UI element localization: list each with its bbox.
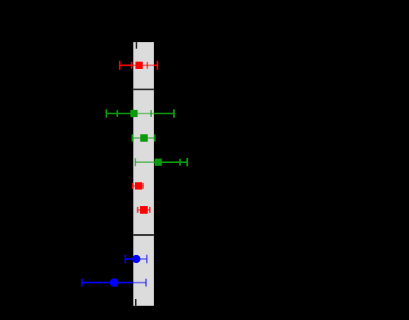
- data row B (green): error bar line right of band: [154, 113, 174, 115]
- data row A (red): error bar line left of band: [120, 64, 134, 66]
- data row H (blue): circle marker: [110, 278, 119, 287]
- data row F (red): right cap (on band): [149, 207, 151, 213]
- data row A (red): error bar line right of band: [154, 64, 158, 66]
- data row E (red): square marker: [135, 182, 142, 189]
- data row D (green): outer left cap (on band): [134, 158, 136, 166]
- separator line 2 (y=235): [133, 234, 154, 236]
- data row G (blue): right cap (on band, pale): [146, 255, 148, 264]
- separator line 1 (y=89): [133, 89, 154, 91]
- data row G (blue): error bar line left of band: [125, 258, 133, 260]
- data row A (red): outer right cap: [156, 61, 158, 70]
- data row D (green): error bar line over band (pale): [135, 161, 153, 163]
- data row D (green): error bar line right of band: [154, 161, 187, 163]
- data row F (red): error bar line (over band, pale): [138, 209, 150, 211]
- data row E (red): left cap: [132, 183, 134, 189]
- data row C (green): right cap: [154, 134, 156, 141]
- data row G (blue): left cap: [124, 255, 126, 264]
- data row D (green): inner right cap: [179, 159, 181, 166]
- data row C (green): error bar line (over band, pale): [132, 137, 155, 139]
- data row B (green): inner left cap: [116, 110, 118, 117]
- data row B (green): inner right cap (on band): [150, 110, 152, 117]
- data row H (blue): error bar line left of band: [82, 282, 133, 284]
- theory band (vertical gray band): [133, 42, 154, 306]
- data row H (blue): right cap (on band, pale): [145, 279, 147, 287]
- data row B (green): outer right cap: [173, 109, 175, 117]
- data row A (red): inner left cap: [131, 62, 133, 69]
- data row A (red): outer left cap: [119, 61, 121, 70]
- top axis tick at x=136: [136, 42, 138, 49]
- data row B (green): outer left cap: [105, 109, 107, 117]
- data row H (blue): left cap: [81, 279, 83, 287]
- data row H (blue): error bar line over band (pale): [133, 282, 146, 284]
- data row B (green): square marker: [130, 110, 137, 117]
- data row E (red): right cap (on band): [142, 183, 144, 189]
- data row A (red): square marker: [135, 62, 142, 69]
- data row C (green): left cap: [131, 134, 133, 141]
- bottom axis tick at x=136: [135, 299, 137, 306]
- data row G (blue): circle marker: [132, 255, 140, 263]
- data row F (red): square marker: [140, 206, 148, 214]
- data row G (blue): error bar line over band (pale): [133, 258, 147, 260]
- data row E (red): error bar line (over band, pale): [133, 185, 143, 187]
- data row B (green): error bar line left of band: [106, 113, 133, 115]
- data row A (red): error bar line over band (pale): [133, 64, 154, 66]
- data row C (green): square marker: [140, 134, 148, 142]
- data row D (green): outer right cap: [186, 158, 188, 166]
- data row B (green): error bar line over band (pale): [133, 113, 154, 115]
- data row F (red): left cap (on band): [137, 207, 139, 213]
- data row A (red): inner right cap (on band, pale): [146, 62, 148, 69]
- data row D (green): square marker: [155, 159, 162, 166]
